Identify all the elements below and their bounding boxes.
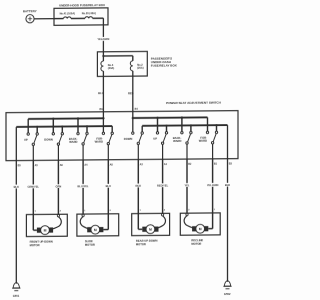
svg-text:WARD: WARD bbox=[173, 139, 181, 143]
label YEL/GRN bbox=[97, 37, 109, 41]
switch contact UP S6 bbox=[153, 132, 167, 145]
label wire color YEL/GRN bbox=[206, 183, 219, 187]
pin B2 bbox=[188, 163, 192, 166]
fuse No.2 (20A) bbox=[130, 61, 143, 71]
label under-hood fuse/relay box bbox=[59, 3, 105, 7]
bus wire right ground bus bbox=[142, 124, 227, 132]
label wire color RED bbox=[135, 184, 141, 188]
svg-text:M: M bbox=[149, 227, 152, 231]
pin B5 bbox=[18, 164, 22, 167]
pin B1 bbox=[214, 163, 218, 166]
wire W6 to rear up-down motor bbox=[162, 159, 164, 213]
svg-text:MOTOR: MOTOR bbox=[85, 243, 95, 247]
svg-text:(20A): (20A) bbox=[137, 66, 144, 70]
wire W2 to front up-down motor bbox=[57, 160, 59, 214]
label wire color RED/YEL bbox=[156, 183, 169, 187]
svg-text:FRONT UP-DOWN: FRONT UP-DOWN bbox=[30, 240, 53, 244]
svg-text:UP: UP bbox=[24, 138, 28, 142]
wire into slide motor bbox=[103, 214, 108, 230]
bus wire from RED (right +B bus) bbox=[132, 116, 208, 132]
wire curved into recline motor bbox=[184, 213, 192, 228]
wire ground left BLK to G551 bbox=[15, 127, 17, 284]
pin 2 front up-down motor bbox=[60, 211, 62, 213]
svg-text:B1: B1 bbox=[214, 163, 218, 166]
recline motor box bbox=[180, 213, 220, 235]
svg-text:BLK: BLK bbox=[14, 185, 19, 189]
switch contact DOWN S2 bbox=[44, 133, 63, 146]
label rear up-down motor bbox=[136, 239, 158, 247]
wire switch S3 output bbox=[82, 145, 84, 160]
wire switch S4 output bbox=[107, 145, 109, 160]
battery B1 bbox=[23, 9, 37, 23]
pin 1 recline motor bbox=[214, 209, 216, 211]
wire into recline motor bbox=[208, 213, 212, 229]
svg-text:2: 2 bbox=[164, 210, 166, 212]
label wire color BLK bbox=[224, 183, 230, 187]
svg-text:BATTERY: BATTERY bbox=[23, 9, 37, 13]
svg-text:G552: G552 bbox=[224, 292, 231, 296]
label wire color YEL bbox=[184, 183, 190, 187]
pin A4 bbox=[84, 164, 88, 167]
front up-down motor box bbox=[26, 214, 67, 236]
pin A8 bbox=[110, 163, 114, 166]
wire battery to under-hood box bbox=[34, 18, 54, 20]
label wire color BLU bbox=[105, 184, 111, 188]
svg-text:B6: B6 bbox=[100, 108, 104, 111]
svg-text:MOTOR: MOTOR bbox=[30, 243, 40, 247]
svg-text:A6: A6 bbox=[60, 164, 64, 167]
svg-text:RED: RED bbox=[128, 91, 134, 95]
svg-text:A3: A3 bbox=[140, 163, 144, 166]
svg-text:WARD: WARD bbox=[199, 139, 207, 143]
wire switch S6 output bbox=[162, 144, 164, 159]
wire into rear up-down motor bbox=[138, 214, 142, 230]
wire W1 to front up-down motor bbox=[32, 160, 34, 214]
svg-text:1: 1 bbox=[140, 210, 142, 212]
node junction in under-dash box bbox=[102, 55, 104, 57]
fuse No.41 (100A) bbox=[60, 11, 76, 18]
label passenger's under-dash fuse/relay box bbox=[151, 56, 177, 67]
wire W8 to recline motor bbox=[212, 159, 214, 213]
wire ground right BLK to G552 bbox=[227, 125, 229, 282]
svg-text:YEL/GRN: YEL/GRN bbox=[207, 183, 219, 187]
svg-text:UP: UP bbox=[153, 137, 157, 141]
fuse No.20 (40A) bbox=[82, 11, 96, 18]
under-hood fuse/relay box bbox=[54, 8, 108, 25]
fuse No.4 (40A) bbox=[101, 56, 114, 71]
wire switch S7 output bbox=[186, 144, 188, 159]
svg-text:REAR UP-DOWN: REAR UP-DOWN bbox=[136, 239, 158, 243]
switch contact UP S1 bbox=[24, 133, 38, 146]
pin 1 front up-down motor bbox=[34, 211, 36, 213]
bus wire from BLU (left +B bus) bbox=[28, 117, 104, 133]
svg-text:2: 2 bbox=[110, 210, 112, 212]
label recline motor bbox=[191, 238, 203, 246]
pin 2 slide motor bbox=[110, 210, 112, 212]
svg-text:GRN: GRN bbox=[56, 184, 62, 188]
svg-text:POWER SEAT ADJUSTMENT SWITCH: POWER SEAT ADJUSTMENT SWITCH bbox=[166, 101, 221, 105]
svg-text:A4: A4 bbox=[84, 164, 88, 167]
svg-text:WARD: WARD bbox=[69, 140, 77, 144]
slide motor box bbox=[77, 214, 119, 236]
wire taps ground contacts bbox=[37, 125, 216, 133]
wire W4 to slide motor bbox=[107, 160, 109, 214]
pin B3 bbox=[229, 162, 233, 165]
svg-text:G551: G551 bbox=[13, 294, 20, 298]
pin 1 slide motor bbox=[84, 210, 86, 212]
svg-text:2: 2 bbox=[188, 210, 190, 212]
passenger's under-dash fuse/relay box bbox=[97, 51, 147, 76]
svg-text:1: 1 bbox=[84, 210, 86, 212]
switch contact BACKWARD S3 bbox=[69, 132, 88, 145]
svg-text:RED: RED bbox=[136, 184, 142, 188]
svg-text:GRN/YEL: GRN/YEL bbox=[28, 185, 40, 189]
label wire color GRN bbox=[55, 184, 61, 188]
wire curved into front up-down motor bbox=[53, 215, 62, 230]
svg-text:DOWN: DOWN bbox=[44, 137, 53, 141]
label wire color GRN/YEL bbox=[27, 184, 40, 188]
pin 1 rear up-down motor bbox=[140, 210, 142, 212]
pin A6 bbox=[60, 164, 64, 167]
rear up-down motor box bbox=[132, 213, 170, 235]
svg-text:DOWN: DOWN bbox=[124, 137, 133, 141]
ground G552 bbox=[223, 281, 231, 296]
label BLU bbox=[98, 91, 104, 95]
svg-text:2: 2 bbox=[60, 211, 62, 213]
svg-text:(40A): (40A) bbox=[108, 66, 115, 70]
switch contact DOWN S5 bbox=[124, 132, 144, 145]
svg-text:M: M bbox=[44, 228, 47, 232]
svg-text:YEL/GRN: YEL/GRN bbox=[97, 37, 109, 41]
svg-text:FUSE/RELAY BOX: FUSE/RELAY BOX bbox=[151, 63, 177, 67]
switch contact BACKWARD S7 bbox=[173, 131, 192, 144]
wire into front up-down motor bbox=[33, 214, 37, 230]
wire RED to switch bbox=[132, 71, 134, 132]
svg-text:B5: B5 bbox=[18, 164, 22, 167]
label power seat adjustment switch bbox=[166, 101, 221, 105]
svg-text:BLU/YEL: BLU/YEL bbox=[78, 184, 90, 188]
svg-text:1: 1 bbox=[214, 209, 216, 211]
pin A1 bbox=[164, 163, 168, 166]
switch contact FORWARD S8 bbox=[199, 131, 218, 144]
wire BLU to switch bbox=[102, 71, 104, 132]
wire jog to fuse No.2 bbox=[103, 56, 132, 61]
svg-text:M: M bbox=[199, 227, 202, 231]
pin A3 bbox=[140, 163, 144, 166]
pin A5 bbox=[35, 164, 39, 167]
svg-text:YEL: YEL bbox=[184, 183, 189, 187]
label RED bbox=[128, 91, 134, 95]
power seat adjustment switch box bbox=[6, 111, 238, 161]
wire switch S2 output bbox=[57, 145, 59, 160]
wire inside under-hood box bbox=[54, 17, 103, 19]
svg-text:MOTOR: MOTOR bbox=[191, 242, 201, 246]
wire switch S1 output bbox=[32, 146, 34, 161]
wire YEL/GRN down to under-dash box bbox=[102, 18, 104, 56]
wire W7 to recline motor bbox=[186, 159, 188, 213]
svg-text:A1: A1 bbox=[164, 163, 168, 166]
svg-text:M: M bbox=[94, 228, 97, 232]
terminal B6 bbox=[100, 108, 104, 111]
wire curved into rear up-down motor bbox=[158, 214, 165, 229]
svg-text:No.41 (100A): No.41 (100A) bbox=[60, 11, 76, 15]
switch contact FORWARD S4 bbox=[95, 132, 114, 145]
svg-text:B3: B3 bbox=[229, 162, 233, 165]
wire W3 to slide motor bbox=[82, 160, 84, 214]
svg-text:No.20 (40A): No.20 (40A) bbox=[82, 11, 96, 15]
wire switch S5 output bbox=[137, 145, 139, 160]
svg-text:B4: B4 bbox=[135, 108, 139, 111]
svg-text:BLK: BLK bbox=[225, 183, 230, 187]
pin 2 recline motor bbox=[188, 210, 190, 212]
label wire color BLU/YEL bbox=[77, 184, 90, 188]
motor M recline motor bbox=[192, 224, 208, 233]
svg-text:A5: A5 bbox=[35, 164, 39, 167]
motor M slide motor bbox=[87, 225, 103, 234]
terminal B4 bbox=[135, 108, 139, 111]
svg-text:WARD: WARD bbox=[95, 140, 103, 144]
svg-text:1: 1 bbox=[34, 211, 36, 213]
motor M front up-down motor bbox=[37, 226, 53, 235]
motor M rear up-down motor bbox=[142, 225, 158, 234]
wire switch S8 output bbox=[212, 144, 214, 159]
svg-text:RED/YEL: RED/YEL bbox=[157, 184, 169, 188]
wire W5 to rear up-down motor bbox=[137, 159, 139, 213]
wire taps +B contacts bbox=[53, 118, 182, 133]
label wire color BLK bbox=[13, 185, 19, 189]
label slide motor bbox=[85, 239, 95, 246]
svg-text:BLU: BLU bbox=[106, 184, 111, 188]
ground G551 bbox=[12, 283, 20, 298]
svg-text:BLU: BLU bbox=[98, 91, 104, 95]
svg-text:A8: A8 bbox=[110, 163, 114, 166]
label front up-down motor bbox=[30, 240, 53, 248]
svg-text:B2: B2 bbox=[188, 163, 192, 166]
pin 2 rear up-down motor bbox=[164, 210, 166, 212]
svg-text:MOTOR: MOTOR bbox=[136, 242, 146, 246]
wire curved into slide motor bbox=[80, 214, 87, 229]
svg-text:UNDER-HOOD FUSE/RELAY BOX: UNDER-HOOD FUSE/RELAY BOX bbox=[59, 3, 105, 7]
bus wire left ground bus bbox=[16, 125, 112, 133]
